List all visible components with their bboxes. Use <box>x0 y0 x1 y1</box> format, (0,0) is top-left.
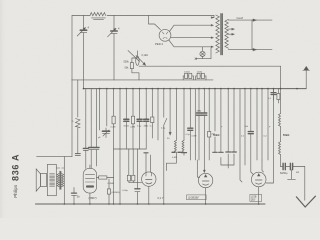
tube V2 electrodes <box>85 175 94 182</box>
wire speaker lead bottom (arrow) <box>252 49 272 51</box>
svg-text:PED 2: PED 2 <box>155 42 164 46</box>
wire comb x99.6 <box>99 89 101 130</box>
field coil frame <box>47 164 56 195</box>
capacitor C9 <box>203 89 205 173</box>
coil L3 (IF) <box>183 89 185 141</box>
wire comb x268 <box>267 89 269 160</box>
wire comb x240 <box>240 89 242 182</box>
tube V5 envelope <box>251 172 266 187</box>
wire top HT rail <box>72 15 214 17</box>
tube V2 cathode to bus <box>89 193 91 204</box>
capacitor C1 (variable, 4) <box>80 29 86 31</box>
svg-text:0,1kΩ: 0,1kΩ <box>142 54 149 57</box>
svg-text:(1/2B2B)*: (1/2B2B)* <box>188 196 199 200</box>
capacitor C5 <box>139 89 141 149</box>
resistor R9 <box>151 89 153 138</box>
label box V5 <box>250 195 262 202</box>
svg-text:0,04µ: 0,04µ <box>122 190 128 192</box>
ground stub under caps <box>288 170 296 180</box>
wire cathode down <box>169 40 212 47</box>
potentiometer P1 (volume) <box>128 51 140 62</box>
wire AVC bus y80 <box>72 79 213 81</box>
trimmer marks row <box>172 151 181 153</box>
junction dots bottom bus <box>64 203 260 205</box>
wire comb x106.8 <box>106 89 108 126</box>
wire comb x234 <box>233 89 235 155</box>
capacitor C12 under bus <box>273 89 275 100</box>
wire comb: volume line with switch squiggle <box>77 80 79 153</box>
capacitor C10 plates <box>135 188 140 190</box>
junction dots on main bus <box>83 88 298 90</box>
resistor pair R3 R4 (boxes above bus) <box>185 73 188 78</box>
coil L2 (IF) <box>175 89 177 141</box>
wire speaker lead top (arrow) <box>252 19 272 21</box>
capacitor C13 (3b) <box>73 188 75 205</box>
svg-text:50kΩ: 50kΩ <box>124 126 130 128</box>
svg-text:4MΩ: 4MΩ <box>197 111 202 113</box>
loudspeaker LS1 cone <box>36 169 40 191</box>
wire speaker right vertical <box>63 157 65 204</box>
capacitor C6 <box>145 89 147 149</box>
svg-text:0,5M: 0,5M <box>130 127 135 129</box>
arrowheads into primary <box>211 17 213 48</box>
label box V4 <box>187 195 207 200</box>
electrolytic C17 plates <box>290 163 292 169</box>
svg-text:4MΩ: 4MΩ <box>144 126 149 128</box>
node bus tap A <box>83 16 85 89</box>
svg-text:50kΩ: 50kΩ <box>213 133 219 137</box>
wire output link vertical <box>251 20 253 49</box>
field coil winding <box>50 174 55 187</box>
svg-text:Philips: Philips <box>13 184 18 198</box>
wire comb x91.2 with cap <box>90 89 92 169</box>
tube V1 PED2 envelope <box>159 29 171 41</box>
wire comb x273.5 into tube V4 side <box>266 89 273 183</box>
output transformer T2 left coil <box>57 174 59 187</box>
wire screen tap <box>171 37 212 39</box>
svg-text:100Ω: 100Ω <box>184 71 190 73</box>
capacitor C7 <box>189 89 191 160</box>
tube V3 top leads <box>146 153 150 172</box>
wire grid feed <box>149 16 161 30</box>
Philips 836A sidebar <box>10 154 20 198</box>
wire comb x262 <box>261 89 263 160</box>
wire x113.6 drop <box>113 149 115 204</box>
svg-text:(2807): (2807) <box>89 196 97 200</box>
svg-text:500k: 500k <box>124 61 130 64</box>
wire main bus y88.6 <box>84 88 307 90</box>
choke L1 (zigzag with core bars) <box>90 13 106 16</box>
wire through electrolytics <box>281 166 305 168</box>
wire B+ right drop <box>280 66 282 113</box>
wire comb x245 <box>244 89 246 165</box>
antenna symbol <box>305 68 307 89</box>
tube V5 electrodes <box>257 174 260 177</box>
electrolytic C16 plates <box>283 163 285 169</box>
wire bridge connector <box>221 155 234 165</box>
output transformer T2 right coil <box>62 174 64 187</box>
transformer T1 secondary winding <box>225 19 228 48</box>
wire comb x257 <box>256 89 258 160</box>
svg-text:2B)*: 2B)* <box>251 200 256 202</box>
wire lamp return <box>196 48 211 59</box>
wire comb x195.3 <box>194 89 196 160</box>
svg-text:0,1 Y: 0,1 Y <box>158 196 164 200</box>
capacitor C14 coupling <box>127 175 130 181</box>
resistor pair R5 R6 <box>197 73 200 78</box>
tube V4 envelope <box>198 173 212 187</box>
wire to chassis <box>304 167 306 201</box>
resistor R11 under bus <box>277 89 279 103</box>
chassis ground V <box>296 196 315 207</box>
tube V1 electrodes <box>162 32 168 39</box>
svg-text:(0,5MΩ): (0,5MΩ) <box>112 192 120 194</box>
tube V3 cathode <box>148 186 150 204</box>
svg-text:0,1µ: 0,1µ <box>186 134 191 136</box>
tube V3 electrodes <box>146 173 152 176</box>
wire caps to tube V3g <box>129 181 142 183</box>
wire comb x158 <box>157 89 159 140</box>
lamp LP1 <box>200 51 205 56</box>
trimmer CT1 <box>103 130 110 132</box>
resistor R2 (500k/50k) <box>130 63 133 69</box>
bottom bus <box>36 203 266 205</box>
wire top rail into transformer <box>212 16 215 18</box>
tube V3 envelope <box>142 172 156 186</box>
wire comb x170.1 with arrow <box>169 89 171 135</box>
wire comb x215 <box>214 89 216 152</box>
resistor R10 <box>208 89 210 160</box>
capacitor C2 (variable, 4) <box>113 16 115 80</box>
wire comb x220.9 <box>220 89 222 152</box>
output transformer T2 core <box>60 171 61 189</box>
wire left vertical main <box>71 16 73 157</box>
wire comb x96.5 with cap <box>96 89 98 166</box>
tube V4 electrodes <box>204 175 207 178</box>
wire mid connector y149 <box>114 148 147 150</box>
wire anode to transformer tap <box>170 25 212 31</box>
wire drops to coupling caps <box>129 149 133 175</box>
capacitor C11 <box>250 89 252 172</box>
capacitor C15 coupling <box>132 175 135 181</box>
svg-text:50kΩ: 50kΩ <box>283 133 289 137</box>
svg-text:0,5M: 0,5M <box>172 157 177 159</box>
svg-text:0,1M: 0,1M <box>111 127 116 129</box>
svg-text:0,1µ: 0,1µ <box>161 128 166 130</box>
coil L5 <box>279 142 281 155</box>
coil L4 (B+ filter) <box>279 114 281 127</box>
wire secondary top tap <box>228 19 252 21</box>
wire comb x228.2 <box>227 89 229 168</box>
wire speaker links <box>56 167 64 169</box>
resistor R12 (0,1M) <box>97 177 114 179</box>
svg-text:0,5M: 0,5M <box>192 135 197 137</box>
svg-text:Ca-M: Ca-M <box>237 16 243 20</box>
lamp LP1 stem <box>202 47 204 59</box>
resistor R13 (0,5M) <box>108 179 110 204</box>
wire secondary bottom tap <box>228 49 252 51</box>
svg-text:0,1µ: 0,1µ <box>137 126 142 128</box>
capacitor C8 <box>198 89 200 160</box>
svg-text:(1/2B: (1/2B <box>251 197 257 199</box>
transformer T1 primary winding <box>216 15 220 53</box>
speaker top wire <box>37 156 72 158</box>
transformer T1 core <box>221 14 222 55</box>
wire secondary mid stubs <box>228 29 234 34</box>
tube V5 leads <box>251 160 264 175</box>
tube V2 output pentode envelope <box>83 168 96 193</box>
resistor R8 <box>132 89 134 149</box>
svg-text:836 A: 836 A <box>10 154 20 181</box>
wire drop to C10 <box>136 149 138 204</box>
capacitor C4 <box>125 89 127 149</box>
resistor R7 <box>113 89 115 149</box>
wire B+ bus y66 <box>143 65 281 67</box>
wire x120 drop <box>119 149 121 204</box>
tube V4 leads <box>197 160 199 178</box>
wire comb x85.8 with cap <box>85 89 87 169</box>
wire comb x163.8 with switch <box>163 89 165 204</box>
svg-text:60/60µ: 60/60µ <box>280 172 288 175</box>
wire comb x120 <box>119 89 121 149</box>
svg-text:100Ω: 100Ω <box>197 71 203 73</box>
svg-text:0,1MΩ: 0,1MΩ <box>108 183 115 185</box>
